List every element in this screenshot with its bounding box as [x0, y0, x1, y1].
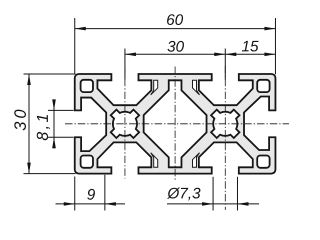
- extension lines 8,1: [48, 110, 74, 137]
- dimension 9 bottom: [56, 189, 126, 206]
- extension lines 30 left: [24, 74, 76, 174]
- extension lines Ø7,3: [213, 177, 237, 211]
- centerline horizontal: [65, 123, 289, 125]
- profile body: 30x60 aluminium extrusion cross-section: [75, 74, 276, 174]
- dimension 8,1 left: [37, 99, 56, 148]
- dimension 15 top: [225, 41, 275, 56]
- extension lines top: [75, 18, 276, 80]
- dimension 30 top: [125, 41, 225, 56]
- centerline right core vertical: [224, 66, 226, 210]
- extension lines 9: [75, 175, 105, 211]
- dimension Ø7,3 bottom: [167, 187, 259, 205]
- dimension 30 left: [14, 74, 31, 174]
- dimension 60 top: [75, 14, 276, 30]
- centerline middle vertical: [174, 67, 176, 182]
- centerline left core vertical: [124, 66, 126, 179]
- web slits (thin white channels): [151, 80, 200, 167]
